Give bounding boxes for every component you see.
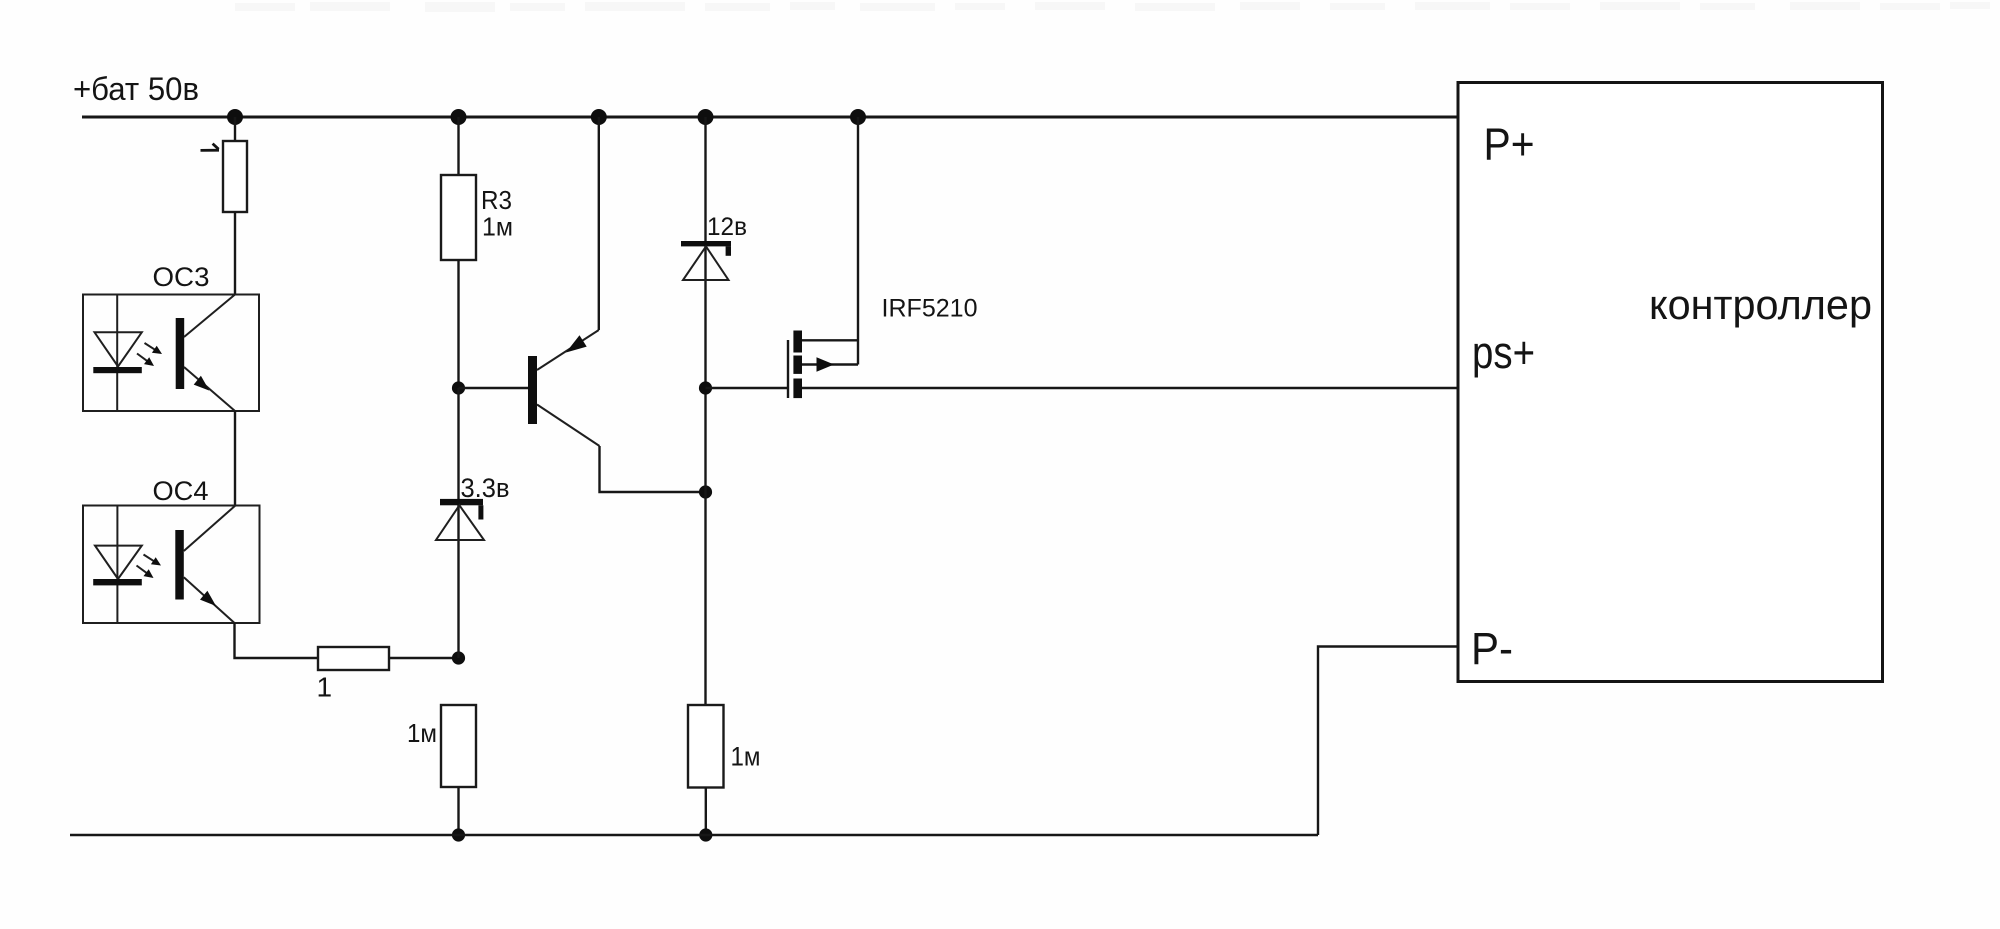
- OC3 emitter arrowhead: [194, 376, 210, 391]
- svg-text:1: 1: [317, 672, 333, 703]
- resistor 1м (right bottom): [688, 705, 724, 788]
- wire: 12в zener column (rail to bottom 1м): [704, 117, 706, 705]
- OC3 collector line: [184, 295, 235, 338]
- wire: OC3 emitter to OC4 collector: [234, 411, 236, 506]
- zener diode 3.3в triangle: [436, 505, 484, 540]
- zener diode 12в cathode hook: [726, 246, 731, 255]
- svg-text:R3: R3: [481, 185, 512, 215]
- junction dot: bottom rail left: [452, 828, 465, 841]
- transistor Q1 emitter line: [537, 330, 599, 370]
- svg-text:+бат 50в: +бат 50в: [73, 71, 199, 107]
- OC4 collector line: [184, 506, 236, 552]
- wire: base node down through zener 3.3в to divider node: [457, 388, 459, 658]
- svg-text:1м: 1м: [731, 742, 761, 772]
- mosfet Q2 channel segment (drain): [793, 331, 802, 353]
- wire: rail to R3: [457, 117, 459, 176]
- svg-text:P-: P-: [1471, 623, 1513, 674]
- svg-text:P+: P+: [1484, 119, 1535, 170]
- OC4 phototransistor base bar: [175, 530, 184, 600]
- OC4 light arrow 2: [137, 566, 149, 575]
- zener diode 3.3в cathode bar: [440, 499, 483, 505]
- wire: right 1м to bottom rail: [705, 788, 707, 836]
- svg-text:IRF5210: IRF5210: [882, 295, 978, 323]
- OC3 LED cathode bar: [93, 367, 142, 373]
- value label 1 (rotated) for R1: [201, 144, 220, 151]
- junction dot: bottom rail right: [699, 828, 712, 841]
- mosfet Q2 channel segment (body): [793, 356, 802, 374]
- wire: 1м to bottom rail: [457, 787, 459, 835]
- resistor 1 (horizontal): [318, 647, 389, 670]
- wire: top +бат 50в rail: [82, 116, 1458, 119]
- junction dot: top rail / Q2 drain column: [850, 109, 866, 125]
- OC4 LED triangle: [95, 546, 142, 579]
- svg-text:12в: 12в: [707, 213, 747, 241]
- optocoupler OC3: [83, 295, 259, 412]
- svg-text:контроллер: контроллер: [1649, 281, 1872, 328]
- wire: Q2 drain to top rail: [857, 117, 859, 365]
- wire: rail to resistor R1: [234, 117, 236, 142]
- svg-text:ps+: ps+: [1472, 327, 1535, 378]
- mosfet Q2 drain line: [802, 339, 858, 341]
- OC4 LED anode-cathode line: [116, 506, 118, 624]
- wire: OC4 emitter down and right to resistor 1: [235, 623, 319, 658]
- svg-text:1м: 1м: [407, 718, 437, 748]
- svg-text:1м: 1м: [482, 212, 513, 242]
- junction dot: gate node: [699, 381, 712, 394]
- mosfet Q2 body arrowhead: [817, 357, 835, 372]
- wire: R1 to OC3 collector: [234, 212, 236, 295]
- mosfet Q2 gate line: [787, 340, 789, 398]
- svg-text:OC3: OC3: [153, 262, 210, 292]
- OC3 light arrow 1: [145, 343, 157, 351]
- svg-text:3.3в: 3.3в: [461, 473, 510, 503]
- optocoupler OC4: [83, 506, 260, 624]
- junction dot: collector node: [699, 485, 712, 498]
- zener diode 12в triangle: [683, 246, 729, 280]
- OC4 emitter line: [184, 577, 235, 623]
- wire: P- to bottom rail: [1318, 647, 1458, 836]
- OC3 light arrow 2: [137, 354, 149, 363]
- OC4 LED cathode bar: [93, 579, 142, 585]
- zener diode 12в cathode bar: [681, 241, 731, 246]
- OC4 light arrow 1: [144, 555, 156, 563]
- transistor Q1 base bar: [528, 356, 537, 424]
- junction dot: base node: [452, 381, 465, 394]
- svg-text:OC4: OC4: [153, 476, 209, 506]
- wire: Q1 collector down and right to 12в column: [600, 446, 706, 492]
- OC3 emitter line: [184, 367, 235, 411]
- transistor Q1 collector line: [537, 405, 600, 447]
- mosfet Q2 body line: [802, 363, 858, 365]
- wire: bottom rail: [70, 834, 1318, 836]
- wire: resistor 1 to junction: [389, 657, 459, 659]
- junction dot: divider node: [452, 651, 465, 664]
- controller box: [1458, 83, 1883, 682]
- wire: Q2 source to ps+: [802, 387, 1458, 389]
- junction dot: top rail / 12в zener column: [698, 109, 714, 125]
- resistor R1 (top left, vertical): [223, 141, 247, 212]
- OC3 LED anode-cathode line: [116, 295, 118, 412]
- OC3 LED triangle: [95, 332, 142, 366]
- resistor R3: [441, 175, 476, 260]
- resistor 1м (left bottom): [441, 705, 476, 787]
- junction dot: top rail / R1 column: [227, 109, 243, 125]
- OC4 emitter arrowhead: [200, 591, 216, 606]
- wire: base node to Q1 base: [459, 387, 529, 389]
- wire: Q1 emitter to top rail: [598, 117, 600, 330]
- wire: gate node to Q2 gate: [706, 387, 789, 389]
- transistor Q1 emitter arrowhead: [566, 335, 587, 352]
- mosfet Q2 channel segment (source): [793, 379, 802, 399]
- junction dot: top rail / Q1 emitter column: [591, 109, 607, 125]
- wire: R3 to base node: [457, 260, 459, 388]
- OC3 phototransistor base bar: [176, 318, 185, 389]
- junction dot: top rail / R3 column: [451, 109, 467, 125]
- zener diode 3.3в cathode hook: [478, 505, 483, 519]
